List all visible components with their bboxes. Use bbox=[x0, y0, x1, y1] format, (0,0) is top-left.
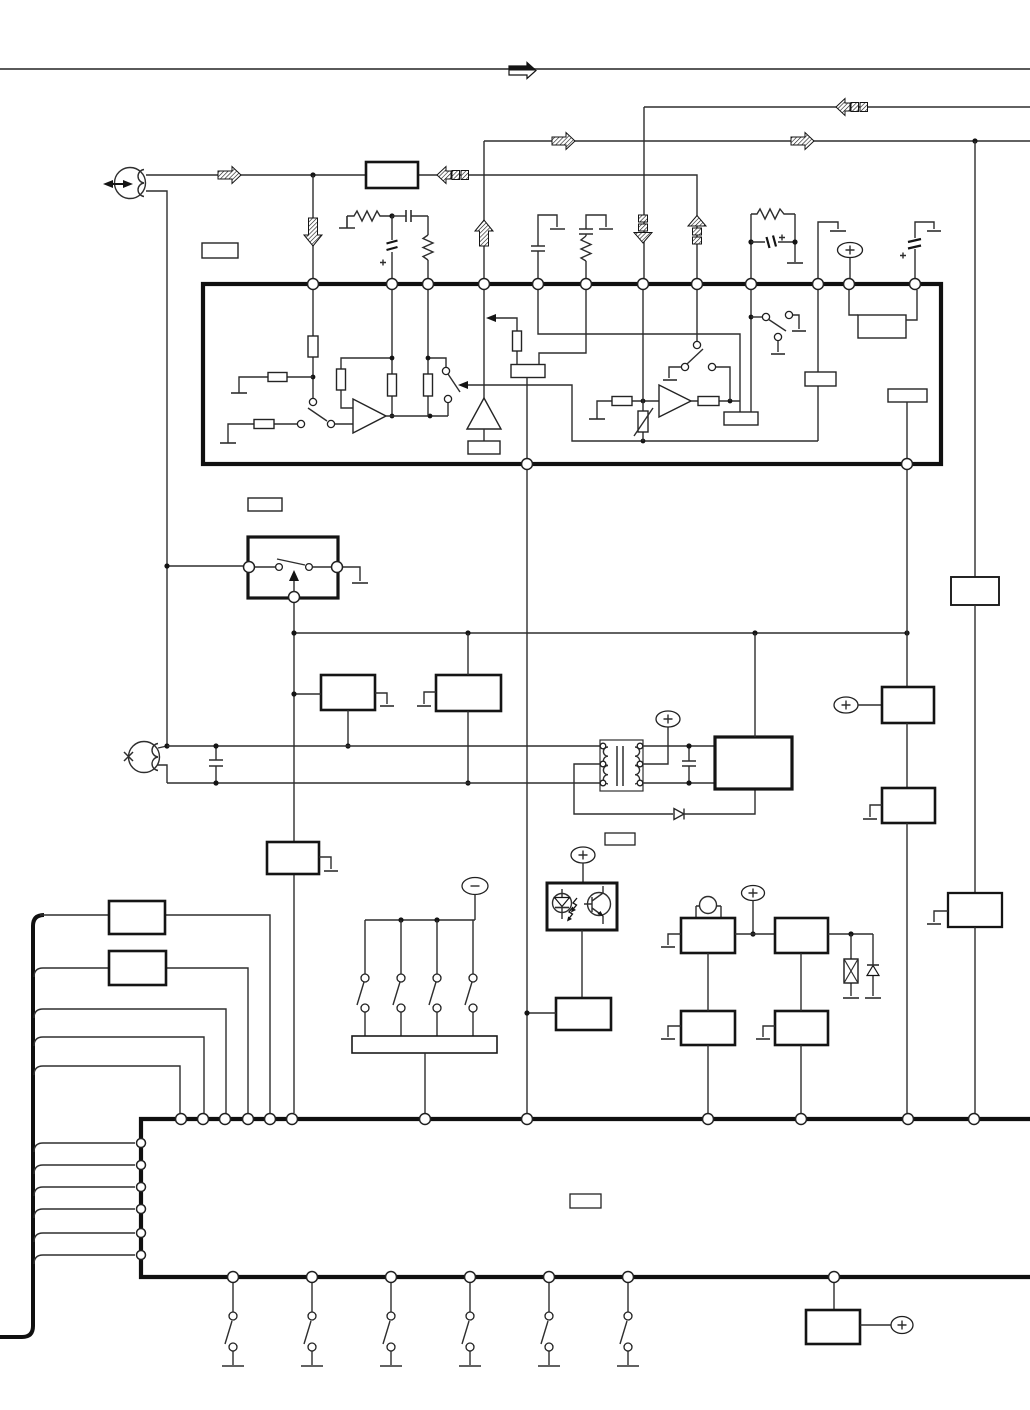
actuate arrow bbox=[293, 578, 295, 592]
opto output wire bbox=[581, 930, 583, 998]
wire IC pin to switch box bbox=[167, 565, 243, 567]
regulator box 2 bbox=[436, 675, 501, 711]
output resistor A2 bbox=[691, 400, 740, 402]
ground of bias network bbox=[339, 216, 355, 228]
switch bank common box bbox=[352, 1036, 497, 1053]
line B y141 bbox=[484, 141, 1030, 278]
S2 contact to output bbox=[716, 367, 730, 401]
wire J1 to line C bbox=[146, 175, 697, 278]
flag arrow up and squares at pin8 bbox=[688, 216, 706, 227]
box F bbox=[775, 1011, 828, 1045]
box above bottom pin right bbox=[888, 389, 927, 402]
label box near opto bbox=[605, 833, 635, 845]
label box inside main board bbox=[570, 1194, 601, 1208]
signal arrow right on J1 wire bbox=[218, 167, 241, 184]
bidirectional arrow at J1 bbox=[110, 183, 126, 185]
ground hook at pin10 bbox=[818, 222, 838, 278]
switch bank switch 1 bbox=[364, 920, 366, 1036]
ground at S2 bbox=[669, 367, 681, 378]
wire J1 lower to left rail bbox=[146, 191, 167, 746]
box on right rail bbox=[951, 577, 999, 605]
resistor R in from pin1 bbox=[312, 290, 314, 398]
mains net bottom bbox=[167, 782, 601, 784]
branch wires to left pins bbox=[34, 1143, 135, 1152]
wire C to D bbox=[735, 933, 775, 935]
ground at S3 right bbox=[793, 315, 799, 329]
branch wire 1 bbox=[40, 915, 270, 1113]
ground and resistor at A2 input bbox=[589, 418, 605, 420]
ground left of box 2 bbox=[424, 692, 436, 704]
signal arrow right 2 on line B bbox=[791, 133, 814, 150]
cap across mains bbox=[215, 746, 217, 783]
flow direction arrow bbox=[509, 63, 536, 79]
ground and resistor row2 bbox=[220, 442, 236, 444]
regulator box 3 bbox=[267, 842, 319, 874]
supply plus mid right bbox=[834, 697, 858, 713]
bottom switch 2 bbox=[311, 1283, 313, 1365]
ground left of right2 bbox=[870, 805, 882, 817]
minus supply over switch bank bbox=[462, 878, 488, 895]
transformer T1 outline bbox=[600, 740, 643, 791]
box C bbox=[681, 918, 735, 953]
node line B to right rail bbox=[972, 138, 977, 143]
switch contacts inside box bbox=[255, 566, 331, 568]
wire pin5 across bbox=[538, 290, 740, 412]
box on pin10 line bbox=[805, 372, 836, 386]
op-amp IC U1 outline bbox=[203, 284, 941, 464]
mute switch S2 bbox=[693, 341, 700, 348]
box under A2 bbox=[724, 412, 758, 425]
resistor above ref box bbox=[513, 331, 522, 351]
pin1 flag arrow down bbox=[312, 175, 314, 278]
ground at S3 lower bbox=[777, 341, 779, 352]
main board left pins bbox=[137, 1139, 146, 1148]
flag squares and arrow down at pin7 bbox=[639, 215, 648, 222]
regulator box right 3 bbox=[948, 893, 1002, 927]
switch bank switch 3 bbox=[436, 920, 438, 1036]
transformer terminals bbox=[600, 743, 606, 749]
right rail from IC bottom pin bbox=[906, 470, 908, 687]
control arrow into buffer line bbox=[486, 314, 496, 322]
ground right of switch box bbox=[343, 567, 360, 581]
branch wire 3 bbox=[34, 1009, 226, 1113]
rectifier diode bbox=[674, 809, 684, 820]
bottom switch 1 bbox=[232, 1283, 234, 1365]
wire pin10 down bbox=[817, 290, 819, 441]
secondary winding bbox=[635, 747, 640, 784]
bus flag after filter box bbox=[437, 167, 451, 184]
ref box bbox=[511, 365, 545, 378]
transformer core bbox=[617, 746, 623, 786]
bottom switch 3 bbox=[390, 1283, 392, 1365]
label box under IC bbox=[248, 498, 282, 511]
pin circles top bbox=[308, 279, 319, 290]
branch wire 2 bbox=[34, 968, 248, 1113]
signal arrow right on line B bbox=[552, 133, 575, 150]
regulator box right 2 bbox=[882, 788, 935, 823]
horizontal net y633 bbox=[294, 632, 907, 634]
resistor from pin2 bbox=[391, 290, 393, 416]
polarized cap at pin12 bbox=[915, 222, 934, 278]
zener diode bbox=[872, 934, 874, 996]
regulator box 1 bbox=[321, 675, 375, 710]
cap and resistor at pin6 bbox=[586, 215, 606, 236]
branch wire 5 bbox=[34, 1066, 180, 1113]
supply plus over transformer bbox=[656, 711, 680, 727]
memory box A bbox=[109, 901, 165, 934]
ground left of box C bbox=[668, 934, 681, 945]
ground and resistor row1 bbox=[231, 392, 247, 394]
mute switch S1 bbox=[442, 367, 449, 374]
primary winding bbox=[603, 747, 608, 784]
node bias bbox=[389, 213, 394, 218]
op-amp A1 bbox=[335, 423, 353, 425]
main board outline bbox=[141, 1119, 1030, 1277]
feedback resistor A1 bbox=[341, 358, 391, 408]
switch bank feed wire bbox=[365, 919, 475, 921]
varistor bbox=[850, 934, 852, 996]
opto transistor bbox=[588, 893, 611, 916]
smoothing cap bbox=[688, 746, 690, 783]
driver box under opto bbox=[556, 998, 611, 1030]
right rail upper bbox=[974, 141, 976, 577]
connector J1 bbox=[115, 168, 146, 199]
op-amp A1 output line bbox=[386, 403, 448, 416]
opto light arrows bbox=[573, 898, 578, 910]
resistor bias h bbox=[347, 211, 392, 221]
optocoupler box bbox=[547, 883, 617, 930]
main board top pins bbox=[176, 1114, 187, 1125]
bottom switch 6 bbox=[627, 1283, 629, 1365]
supply plus bottom right bbox=[891, 1317, 913, 1334]
secondary wires bbox=[643, 746, 715, 783]
ground right of box 3 bbox=[319, 857, 331, 869]
box D bbox=[775, 918, 828, 953]
resistor to pin3 bbox=[411, 216, 428, 235]
RC to ground at pin9 bbox=[750, 214, 752, 278]
supply plus over node bbox=[742, 886, 765, 901]
power supply box bbox=[715, 737, 792, 789]
branch wire 4 bbox=[34, 1037, 204, 1113]
polarized cap to pin2 bbox=[391, 216, 393, 278]
label box top left bbox=[202, 243, 238, 258]
secondary tap to supply plus bbox=[643, 727, 668, 764]
wire pin7 down bbox=[642, 290, 644, 441]
bottom switch 4 bbox=[469, 1283, 471, 1365]
pin circles bottom bbox=[522, 459, 533, 470]
left rail of bottom IC pin bbox=[526, 470, 528, 1113]
standby switch S3 bbox=[751, 316, 762, 318]
buffer amp triangle bbox=[467, 398, 501, 429]
box under buffer bbox=[468, 441, 500, 454]
resistor from pin3 bbox=[428, 290, 446, 416]
switch bank switch 2 bbox=[400, 920, 402, 1036]
mains net top bbox=[167, 745, 601, 747]
switch bank switch 4 bbox=[472, 920, 474, 1036]
left feed bus bbox=[0, 915, 44, 1337]
op-amp A2 bbox=[659, 385, 691, 417]
opto LED bbox=[553, 894, 572, 913]
motor circle on box C bbox=[700, 897, 717, 914]
supply plus at pin11 bbox=[838, 243, 863, 258]
memory box B bbox=[109, 951, 166, 985]
node on J1 wire bbox=[310, 172, 315, 177]
center rail down from switch box bbox=[293, 603, 295, 1113]
filter box bbox=[366, 162, 418, 188]
primary tap wire bbox=[574, 764, 673, 814]
bus flag on line A bbox=[836, 99, 850, 116]
regulator box right 1 bbox=[882, 687, 934, 723]
wire D to protection bbox=[828, 933, 873, 935]
ground left of box F bbox=[763, 1026, 775, 1037]
cap at pin5 bbox=[538, 215, 557, 278]
bottom switch 5 bbox=[548, 1283, 550, 1365]
main board bottom pins bbox=[228, 1272, 239, 1283]
J2 wires bbox=[157, 746, 167, 783]
page rule bbox=[0, 68, 1030, 70]
ground left of box E bbox=[668, 1026, 681, 1037]
variable resistor bbox=[638, 411, 648, 432]
connector J2 bbox=[129, 742, 160, 773]
box E bbox=[681, 1011, 735, 1045]
logic box top right bbox=[858, 315, 906, 338]
power box bottom right bbox=[833, 1283, 835, 1310]
wire pin6 to ref box bbox=[539, 290, 586, 364]
supply plus over opto bbox=[571, 847, 595, 863]
input select switch bbox=[297, 420, 304, 427]
coupling cap h bbox=[392, 215, 406, 217]
pin4 flag arrow up bbox=[475, 220, 493, 246]
control arrow into S1 bbox=[458, 381, 468, 389]
wire pin9 down to box bbox=[750, 290, 752, 412]
record switch box bbox=[248, 537, 338, 598]
ground left of right3 bbox=[934, 911, 948, 922]
ground right of box 1 bbox=[375, 693, 387, 704]
buffer amp line from pin4 bbox=[483, 290, 485, 398]
line A y107 bbox=[644, 107, 1030, 278]
